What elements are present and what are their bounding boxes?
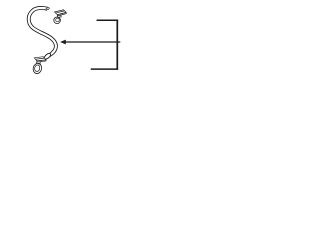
hose bottom end opening [43,52,51,60]
clamp C2 screw head [34,57,46,62]
hose (S-shaped tube, outline) [29,8,56,56]
bracket top arm [97,19,119,21]
clamp C1 screw head [55,10,67,16]
clamp C2 (bottom) band [32,62,43,74]
clamp C1 (top) band [54,17,61,24]
clamp C2 screw neck [37,61,41,64]
bracket bottom arm [91,68,118,70]
hose top end opening [46,7,50,10]
arrow head [60,40,66,45]
bracket vertical [116,20,118,70]
arrow shaft [66,41,121,43]
clamp C1 screw neck [57,15,61,18]
